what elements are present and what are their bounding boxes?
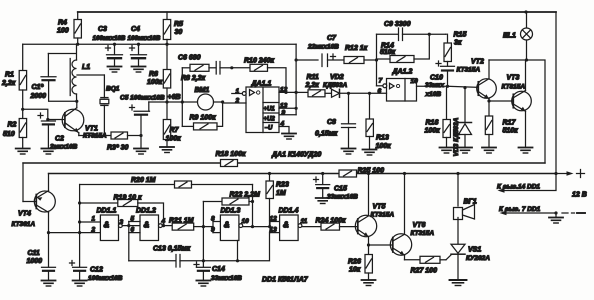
svg-text:R22 2,2М: R22 2,2М [230, 192, 261, 199]
op-amp DA1.2 [387, 69, 417, 102]
svg-text:х10В: х10В [425, 91, 442, 98]
svg-text:2,2к: 2,2к [1, 80, 16, 87]
resistor R8 [181, 64, 216, 82]
ground under VS1 [450, 280, 467, 286]
transistor VT1 [62, 101, 107, 139]
svg-text:VS1: VS1 [468, 247, 481, 254]
svg-text:ВГ1: ВГ1 [464, 199, 477, 206]
svg-text:+U1: +U1 [264, 107, 276, 113]
ground under C2 [41, 149, 55, 155]
svg-text:R10 240к: R10 240к [244, 58, 274, 65]
DA1.1 input pin 2 [223, 98, 246, 105]
svg-text:R1: R1 [5, 72, 14, 79]
svg-text:9: 9 [282, 110, 286, 117]
svg-text:1000: 1000 [27, 258, 43, 265]
crystal BQ1 [100, 75, 120, 136]
capacitor C11 [27, 233, 56, 286]
svg-text:C15: C15 [334, 186, 347, 193]
svg-text:C2: C2 [55, 136, 64, 143]
svg-text:R27 100: R27 100 [411, 268, 438, 275]
svg-text:1: 1 [236, 88, 240, 95]
svg-text:9: 9 [211, 227, 215, 234]
svg-text:DD1.4: DD1.4 [279, 208, 299, 215]
svg-text:VT4: VT4 [18, 211, 31, 218]
svg-text:4: 4 [280, 121, 285, 128]
svg-text:R13: R13 [376, 135, 389, 142]
svg-text:R6: R6 [149, 71, 158, 78]
transistor VT6 [369, 174, 435, 260]
svg-text:100к: 100к [166, 136, 182, 143]
DA1.2 input pin 7 [377, 78, 387, 88]
svg-text:DD1 К561ЛА7: DD1 К561ЛА7 [262, 277, 309, 284]
wire top +12 rail [78, 11, 556, 13]
DA1.1 pin 13 [279, 103, 298, 110]
ground under R17 [482, 148, 496, 154]
gate DD1.2 [127, 208, 172, 241]
svg-text:510к: 510к [503, 128, 519, 135]
svg-text:КТ315А: КТ315А [457, 67, 481, 74]
resistor R1 [1, 44, 27, 109]
wire R20 drop column [251, 185, 254, 229]
svg-text:КТ361А: КТ361А [12, 221, 36, 228]
svg-text:C5 100мкх10В: C5 100мкх10В [120, 95, 165, 102]
svg-text:510к: 510к [380, 49, 396, 56]
DA1.1 pin 9 [279, 110, 296, 117]
transistor VT2 [457, 59, 497, 117]
svg-text:12 В: 12 В [572, 192, 587, 199]
svg-text:C7: C7 [327, 35, 337, 42]
capacitor C12 [70, 261, 123, 287]
transistor VT5 [355, 174, 394, 247]
ground under R26 [362, 280, 376, 286]
svg-text:DD1.3: DD1.3 [221, 208, 241, 215]
wire R1R2 junction to C2/base [21, 108, 64, 121]
svg-text:11: 11 [301, 218, 308, 225]
svg-text:R16: R16 [426, 120, 439, 127]
svg-text:ДА1.2: ДА1.2 [392, 69, 413, 76]
wire BM1 node column [181, 68, 184, 127]
svg-text:&: & [283, 221, 289, 230]
svg-text:ДА1.1: ДА1.1 [251, 81, 272, 88]
svg-text:&: & [224, 221, 230, 230]
svg-text:R18 100к: R18 100к [216, 151, 246, 158]
capacitor C6 [178, 55, 233, 75]
resistor R4 [57, 12, 81, 44]
svg-text:R3* 30: R3* 30 [107, 144, 129, 151]
svg-text:3к: 3к [454, 40, 462, 47]
svg-text:C14: C14 [212, 266, 225, 273]
svg-text:VD2: VD2 [330, 74, 344, 81]
resistor R5 [163, 12, 183, 44]
svg-text:VT2: VT2 [471, 59, 484, 66]
DA1.1 input pin 1 [232, 88, 246, 95]
ground under C5/R3 [134, 136, 148, 155]
wire L1 tap to BQ1 [77, 74, 104, 76]
DA1.1 pin 4 ground [279, 121, 296, 140]
wire feedback column x296 [295, 44, 297, 115]
svg-text:33мкх: 33мкх [425, 82, 444, 89]
gate DD1.3 [203, 208, 269, 263]
capacitor C14 [194, 261, 242, 286]
svg-text:&: & [144, 221, 150, 230]
svg-text:10: 10 [411, 78, 419, 85]
svg-text:13: 13 [280, 103, 288, 110]
svg-text:12: 12 [280, 87, 288, 94]
wire rail A (R18 rail) [23, 163, 545, 202]
svg-text:EL1: EL1 [503, 33, 516, 40]
wire C1 to L1 [48, 53, 75, 55]
svg-text:К выв.14 DD1: К выв.14 DD1 [497, 184, 540, 191]
wire right rail [555, 12, 557, 174]
svg-text:+6В: +6В [168, 94, 181, 101]
svg-text:12: 12 [270, 216, 278, 223]
wire C13 drop from DD1.2 input [128, 233, 130, 261]
svg-text:R2: R2 [8, 122, 17, 129]
svg-text:C6 680: C6 680 [178, 55, 201, 62]
wire to pin14 DD1 [497, 174, 556, 193]
gate DD1.4 [268, 208, 321, 241]
resistor R19 [80, 195, 165, 228]
svg-text:R9 100к: R9 100к [190, 115, 217, 122]
svg-text:2мкх10В: 2мкх10В [49, 144, 78, 151]
capacitor C1 [30, 54, 77, 102]
svg-text:R20 1M: R20 1M [131, 177, 156, 184]
ground under C8 [342, 149, 356, 155]
resistor R13 [366, 92, 391, 150]
svg-text:К выв. 7 DD1: К выв. 7 DD1 [499, 206, 541, 213]
svg-text:КТ315А: КТ315А [371, 212, 395, 219]
svg-text:VT5: VT5 [373, 204, 386, 211]
svg-text:R21 1M: R21 1M [169, 218, 194, 225]
svg-text:VT3: VT3 [507, 75, 520, 82]
svg-text:КТ315А: КТ315А [411, 230, 435, 237]
inductor L1 [70, 44, 90, 103]
ground under VT3 [519, 148, 533, 154]
svg-text:ДА1 К140УД20: ДА1 К140УД20 [271, 152, 321, 159]
svg-text:C13 0,15мк: C13 0,15мк [153, 246, 191, 253]
svg-text:33мкх16В: 33мкх16В [211, 275, 242, 282]
svg-text:3: 3 [120, 219, 124, 226]
svg-text:100мкх16В: 100мкх16В [93, 35, 126, 42]
wire to pin7 DD1 / minus terminal [499, 206, 585, 223]
resistor R27 [405, 256, 447, 274]
svg-text:13: 13 [270, 227, 278, 234]
resistor R16 [425, 86, 451, 147]
wire feedback left column [376, 34, 378, 86]
gate DD1.1 [80, 208, 140, 241]
svg-text:100мкх16В: 100мкх16В [128, 35, 161, 42]
svg-text:+U2: +U2 [264, 117, 276, 123]
transistor VT3 [489, 60, 531, 148]
svg-text:C4: C4 [131, 26, 140, 33]
resistor R11 [296, 74, 331, 97]
svg-text:ВМ1: ВМ1 [195, 87, 210, 94]
svg-text:6: 6 [131, 227, 135, 234]
svg-text:R4: R4 [58, 20, 67, 27]
svg-text:100к: 100к [425, 128, 441, 135]
resistor R3 [79, 132, 143, 151]
wire base VT2 [448, 86, 479, 87]
capacitor C4 [128, 26, 161, 72]
diode VD2 [323, 74, 348, 97]
svg-text:BQ1: BQ1 [106, 86, 120, 93]
svg-text:7: 7 [379, 78, 383, 85]
svg-text:КУ202А: КУ202А [466, 255, 490, 262]
svg-text:R7: R7 [170, 127, 180, 134]
ground under R13 [363, 150, 377, 156]
capacitor C13 [129, 246, 238, 268]
ground under VD3 [458, 148, 472, 154]
svg-text:1M: 1M [276, 190, 286, 197]
resistor R26 [348, 245, 372, 280]
svg-text:4: 4 [161, 218, 166, 225]
svg-text:VD3 КД503А: VD3 КД503А [453, 117, 460, 156]
resistor R22 [203, 192, 260, 206]
resistor R10 [232, 58, 288, 95]
wire collector node y60 [489, 60, 545, 163]
resistor R9 [182, 102, 222, 130]
resistor R12 [344, 45, 378, 64]
capacitor C3 [93, 26, 126, 72]
svg-text:VT6: VT6 [413, 222, 426, 229]
ground under R16 [440, 148, 454, 154]
svg-text:22мкх10В: 22мкх10В [307, 44, 339, 51]
capacitor C2 [38, 113, 78, 151]
resistor R23 [266, 174, 289, 227]
wire R22 left column [202, 202, 205, 263]
diode VD3 [453, 86, 472, 156]
speaker BG1 [454, 174, 477, 245]
svg-text:&: & [104, 221, 110, 230]
svg-text:C8: C8 [327, 119, 336, 126]
svg-text:100к: 100к [376, 143, 392, 150]
svg-text:R11: R11 [307, 74, 319, 81]
svg-text:R23: R23 [276, 182, 289, 189]
svg-text:C1*: C1* [32, 84, 44, 91]
capacitor C15 [314, 174, 359, 204]
svg-text:КД503А: КД503А [323, 82, 348, 89]
resistor R7 [163, 102, 181, 147]
svg-text:R15: R15 [454, 32, 467, 39]
svg-text:510: 510 [3, 131, 15, 138]
resistor R18 [216, 151, 246, 167]
lamp EL1 [503, 10, 533, 61]
svg-text:10к: 10к [349, 267, 361, 274]
svg-text:C3: C3 [98, 26, 107, 33]
svg-text:L1: L1 [82, 64, 90, 71]
svg-text:R24 100к: R24 100к [316, 218, 346, 225]
DA1.2 output pin 10 [411, 78, 450, 88]
svg-text:C10: C10 [430, 75, 443, 82]
capacitor C8 [315, 92, 356, 149]
svg-text:100к: 100к [147, 79, 163, 86]
ground under R7 [160, 147, 174, 153]
svg-text:DD1.2: DD1.2 [136, 208, 156, 215]
resistor R17 [485, 116, 518, 148]
svg-text:C9 3300: C9 3300 [384, 21, 411, 28]
capacitor C7 [296, 35, 344, 67]
wire collector +6V bus [149, 100, 169, 103]
svg-text:2000: 2000 [30, 93, 47, 100]
svg-text:C12: C12 [90, 267, 103, 274]
svg-text:R5: R5 [174, 21, 183, 28]
capacitor C5 [120, 95, 165, 136]
DA1.1 output pin 12 [279, 87, 298, 95]
svg-text:5: 5 [131, 216, 135, 223]
transistor VT4 [12, 174, 56, 235]
resistor R15 [444, 32, 466, 67]
svg-text:VT1: VT1 [85, 126, 98, 133]
svg-text:6: 6 [378, 88, 382, 95]
terminal +12V [556, 170, 587, 199]
svg-text:R25 100: R25 100 [358, 168, 385, 175]
svg-text:R17: R17 [503, 120, 517, 127]
resistor R14 [377, 34, 430, 62]
svg-text:−U: −U [265, 126, 274, 132]
ground under R2 [16, 149, 30, 155]
svg-text:10: 10 [242, 218, 250, 225]
wire rail B (+12V bus) [49, 172, 558, 175]
svg-text:DD1.1: DD1.1 [97, 208, 117, 215]
resistor R24 [316, 218, 358, 231]
svg-text:R8 2,2к: R8 2,2к [181, 75, 206, 82]
svg-text:8: 8 [211, 216, 215, 223]
op-amp DA1.1 [246, 81, 279, 133]
resistor R20 [80, 177, 253, 188]
svg-text:33мкх16В: 33мкх16В [327, 194, 358, 201]
resistor R21 [169, 218, 203, 231]
svg-text:100мкх16В: 100мкх16В [88, 275, 123, 282]
svg-text:1: 1 [92, 216, 96, 223]
resistor R2 [3, 109, 27, 148]
resistor R25 [339, 168, 384, 178]
capacitor C9 [377, 21, 447, 41]
microphone BM1 [167, 87, 224, 110]
svg-text:КТ815А: КТ815А [502, 84, 526, 91]
resistor R6 [147, 44, 171, 102]
wire VT4 collector to DD1.1 pin2 [49, 231, 101, 234]
DA1.2 input pin 6 [340, 88, 387, 95]
svg-text:R19 10 к: R19 10 к [114, 195, 143, 202]
svg-text:2: 2 [235, 98, 240, 105]
svg-text:30: 30 [175, 29, 183, 36]
capacitor C10 [425, 61, 455, 98]
svg-text:2: 2 [91, 227, 96, 234]
svg-text:2,2к: 2,2к [305, 82, 320, 89]
svg-text:R26: R26 [348, 259, 361, 266]
thyristor VS1 [446, 244, 490, 280]
wire DD1.4 input lower loop [238, 233, 270, 261]
wire bus y44 [23, 43, 296, 46]
svg-text:C11: C11 [28, 250, 40, 257]
svg-text:R12 1к: R12 1к [345, 45, 368, 52]
svg-text:0,15мк: 0,15мк [315, 131, 338, 138]
wire column x79.6 [78, 185, 81, 268]
svg-text:100: 100 [57, 28, 69, 35]
